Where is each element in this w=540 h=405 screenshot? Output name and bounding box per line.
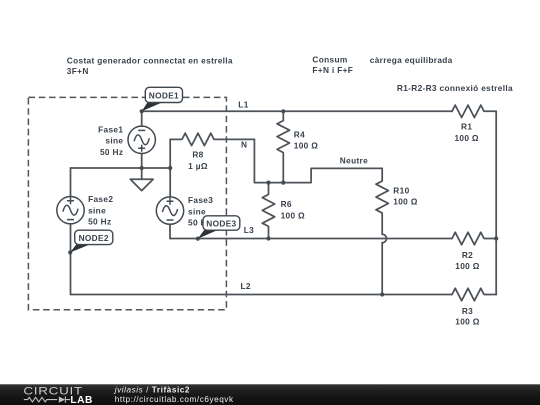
svg-text:1 µΩ: 1 µΩ: [188, 161, 208, 171]
resistor R6: [262, 183, 274, 239]
wire Fase1 bottom lead: [141, 154, 143, 169]
resistor R2: [452, 232, 496, 244]
svg-text:Consum: Consum: [312, 55, 347, 65]
svg-text:sine: sine: [88, 205, 106, 215]
svg-text:100 Ω: 100 Ω: [294, 141, 318, 151]
svg-text:Fase3: Fase3: [188, 195, 213, 205]
junction node NODE2: [68, 250, 72, 254]
svg-text:NODE3: NODE3: [206, 219, 236, 229]
svg-text:100 Ω: 100 Ω: [455, 261, 479, 271]
svg-text:50 Hz: 50 Hz: [88, 217, 111, 227]
logo resistor-diode: [24, 397, 70, 403]
wire Fase2 top lead: [70, 168, 72, 197]
svg-text:Fase2: Fase2: [88, 194, 113, 204]
junction R8 left / Fase3 top: [168, 166, 172, 170]
dashed generator box: [28, 97, 226, 309]
svg-text:Neutre: Neutre: [340, 155, 368, 165]
wire Fase3 top lead: [169, 139, 171, 197]
resistor R3: [452, 288, 496, 300]
svg-text:jvilasis / Trifàsic2: jvilasis / Trifàsic2: [114, 385, 190, 394]
svg-text:100 Ω: 100 Ω: [454, 133, 478, 143]
wire under sources: [71, 167, 171, 169]
junction node NODE1 on L1: [140, 109, 144, 113]
resistor R10: [376, 168, 388, 234]
svg-text:R1-R2-R3 connexió estrella: R1-R2-R3 connexió estrella: [397, 83, 513, 93]
ground: [130, 168, 153, 191]
svg-text:50 Hz: 50 Hz: [100, 147, 123, 157]
wire right rail: [495, 111, 497, 294]
wire R10 to L2: [381, 243, 383, 295]
junction R6 bottom on L3: [266, 236, 270, 240]
wire N: [254, 139, 382, 182]
node callout NODE3: [198, 216, 240, 239]
svg-text:L2: L2: [241, 281, 251, 291]
wire Fase2 bottom lead: [70, 224, 72, 295]
junction Fase1 bottom / ground: [140, 166, 144, 170]
resistor R8: [170, 133, 254, 145]
svg-text:R8: R8: [192, 149, 203, 159]
source Fase1 V1: [128, 126, 155, 153]
annotation texts: [67, 55, 513, 327]
svg-text:NODE1: NODE1: [149, 91, 179, 101]
wire hop over L3: [382, 234, 386, 243]
svg-text:100 Ω: 100 Ω: [455, 316, 479, 326]
svg-text:100 Ω: 100 Ω: [281, 210, 305, 220]
svg-text:R10: R10: [393, 185, 409, 195]
svg-text:N: N: [241, 140, 247, 150]
junction R2 right on rail: [494, 236, 498, 240]
svg-text:http://circuitlab.com/c6yeqvk: http://circuitlab.com/c6yeqvk: [115, 395, 234, 404]
svg-text:càrrega equilibrada: càrrega equilibrada: [370, 55, 453, 65]
junction R4 top on L1: [281, 109, 285, 113]
svg-text:L1: L1: [238, 99, 248, 109]
svg-text:Fase1: Fase1: [98, 125, 123, 135]
wire L2: [71, 294, 453, 296]
svg-text:100 Ω: 100 Ω: [393, 197, 417, 207]
wire L1: [142, 110, 452, 112]
wire Fase3 bottom lead: [169, 224, 171, 238]
svg-text:NODE2: NODE2: [79, 233, 109, 243]
resistor R4: [277, 111, 289, 182]
svg-text:R6: R6: [281, 199, 292, 209]
junction R10 bottom on L2: [380, 292, 384, 296]
svg-text:3F+N: 3F+N: [67, 66, 89, 76]
node callout NODE1: [142, 87, 183, 111]
resistor R1: [452, 105, 496, 117]
junction R4 bottom on neutral: [281, 181, 285, 185]
svg-text:Costat generador connectat en: Costat generador connectat en estrella: [67, 56, 233, 66]
svg-text:R1: R1: [461, 122, 472, 132]
svg-text:R2: R2: [462, 250, 473, 260]
wire L3: [170, 238, 452, 240]
junction R6 top on neutral: [266, 181, 270, 185]
source Fase3 V3: [156, 197, 183, 224]
source Fase2 V2: [57, 197, 84, 224]
junction node NODE3 on L3: [196, 237, 200, 241]
svg-text:L3: L3: [244, 225, 254, 235]
svg-text:F+N i F+F: F+N i F+F: [312, 65, 353, 75]
svg-text:R3: R3: [462, 306, 473, 316]
op: voltage sources: [57, 126, 184, 224]
svg-text:R4: R4: [294, 129, 305, 139]
svg-text:sine: sine: [105, 136, 123, 146]
svg-text:sine: sine: [188, 206, 206, 216]
node callout NODE2: [70, 230, 113, 252]
wire Fase1 top lead: [141, 111, 143, 126]
svg-text:LAB: LAB: [70, 395, 92, 405]
